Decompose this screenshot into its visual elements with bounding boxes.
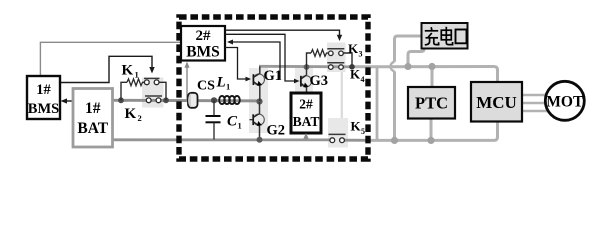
svg-text:K: K <box>348 41 359 56</box>
sense arrow from rail up into 2#BAT <box>305 137 307 141</box>
K3 contact <box>327 48 344 50</box>
capacitor C1 <box>213 100 215 115</box>
svg-text:MOT: MOT <box>546 94 584 111</box>
sense arrow from main wire up into 2#BMS <box>186 66 188 101</box>
wire: top bus right side to MCU <box>352 67 498 83</box>
svg-text:K: K <box>351 119 362 134</box>
svg-text:1: 1 <box>238 121 242 131</box>
wire1 BMS to K3 coil <box>225 30 340 36</box>
svg-text:4: 4 <box>361 75 365 84</box>
junction C1 top <box>211 97 217 103</box>
svg-text:3: 3 <box>359 50 363 59</box>
svg-text:2#: 2# <box>196 28 212 44</box>
svg-text:PTC: PTC <box>415 94 448 113</box>
junction G2 emitter on rail <box>257 137 263 143</box>
relay body K1/K2 <box>142 78 164 108</box>
wire: bottom negative rail (inside box) <box>113 138 330 141</box>
char DIAN <box>441 27 452 45</box>
wire: bottom rail right side to MCU <box>368 122 498 141</box>
svg-text:1#: 1# <box>85 100 101 117</box>
svg-text:MCU: MCU <box>476 93 517 112</box>
motor MOT <box>545 81 584 120</box>
svg-text:BMS: BMS <box>28 101 59 117</box>
box PTC <box>408 87 455 119</box>
svg-text:K: K <box>122 63 134 79</box>
junction K3/K4 right node <box>349 64 355 70</box>
box MCU <box>471 82 522 122</box>
K1 contact <box>144 77 160 79</box>
wire: 1#BMS top gray wire to 2#BMS <box>40 42 181 76</box>
svg-text:L: L <box>216 75 226 91</box>
svg-text:BAT: BAT <box>77 120 108 137</box>
svg-text:G1: G1 <box>264 68 283 84</box>
junction charge-port negative on rail <box>391 137 398 144</box>
wire4 BMS to G1 gate <box>225 48 247 80</box>
resistor + K1 contact branch <box>121 82 127 100</box>
wire: charge port left pin down with hop <box>395 36 422 62</box>
char KOU <box>456 30 467 44</box>
K4 contact on bus <box>327 62 344 64</box>
relay body K5 <box>328 118 348 148</box>
box 1#BAT <box>73 89 113 148</box>
phase node junction <box>256 98 262 104</box>
svg-text:BAT: BAT <box>293 114 320 129</box>
junction K1 right <box>163 97 169 103</box>
svg-text:G2: G2 <box>267 123 286 139</box>
svg-text:5: 5 <box>361 127 365 136</box>
svg-text:G3: G3 <box>310 73 329 89</box>
svg-text:K: K <box>125 106 137 122</box>
wire: charge port bottom pin to bus <box>408 49 424 67</box>
resistor R(K3) <box>311 50 328 57</box>
wire: PTC top <box>431 67 434 88</box>
box 2#BMS <box>181 26 225 61</box>
K2 contact <box>145 95 162 97</box>
svg-text:BMS: BMS <box>186 44 220 61</box>
svg-text:1: 1 <box>135 70 139 80</box>
resistor R(K1) <box>127 79 144 86</box>
wire: main positive wire from 1#BAT <box>113 99 260 102</box>
junction charge-port positive on bus <box>404 63 411 70</box>
char CHONG <box>425 27 439 45</box>
transistor G2 <box>259 102 261 114</box>
svg-text:1: 1 <box>226 82 230 92</box>
junction K1 left <box>118 97 124 103</box>
svg-text:CS: CS <box>197 79 215 94</box>
svg-text:2: 2 <box>138 113 142 123</box>
box 1#BMS <box>27 76 60 119</box>
dashed converter boundary <box>179 17 368 159</box>
wire: top bus G1 collector to K4 <box>259 65 352 68</box>
transistor G1 <box>259 66 261 74</box>
box charge port (Chinese) <box>422 23 468 49</box>
svg-text:C: C <box>227 114 238 130</box>
svg-text:K: K <box>350 67 361 82</box>
wire: vertical bus-rail link x377 <box>376 67 379 140</box>
junction G3/K3 left node <box>304 64 310 70</box>
CS current sensor <box>188 93 198 108</box>
wires: MCU to MOT 3 phase lines <box>522 94 547 97</box>
arrow 1#BAT to 1#BMS <box>64 100 73 102</box>
svg-text:1#: 1# <box>36 82 51 98</box>
K3 precharge branch <box>307 53 312 67</box>
svg-text:2#: 2# <box>299 97 313 112</box>
K5 contact on rail <box>329 133 346 135</box>
wire2 BMS to G3 gate <box>225 34 295 81</box>
transistor G3 <box>306 67 308 75</box>
relay body K3/K4 <box>327 43 346 73</box>
wire: 1#BMS to K1 coil control <box>60 56 152 82</box>
IGBT shading G1 G2 <box>249 68 268 133</box>
wire: PTC bottom <box>430 118 433 140</box>
wire3 sense into BMS <box>231 42 280 79</box>
inductor L1 <box>219 96 240 104</box>
relay linkage K4-K5 (faint) <box>341 72 343 118</box>
IGBT shading G3 <box>295 68 313 93</box>
box 2#BAT <box>291 93 321 133</box>
